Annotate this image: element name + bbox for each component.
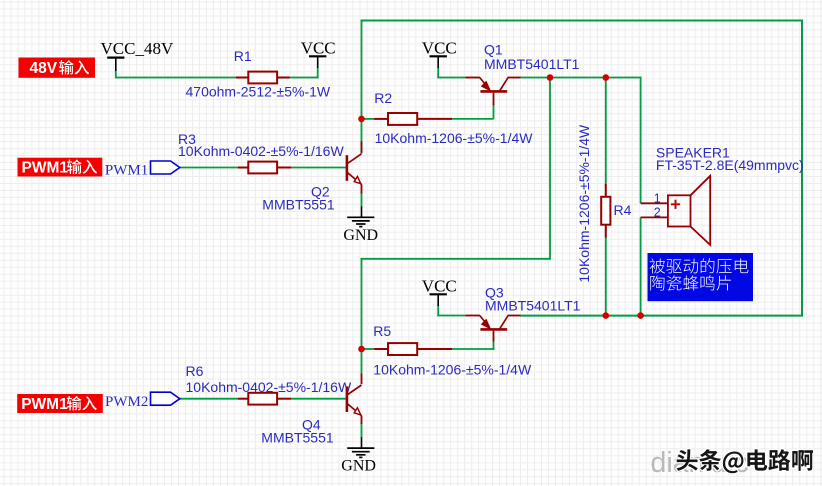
svg-text:VCC: VCC xyxy=(422,39,457,58)
svg-text:48V: 48V xyxy=(30,60,58,77)
power symbol VCC_48V xyxy=(107,56,124,58)
wire x361.5 down from y258.8 to Q4 collector xyxy=(361,258,363,375)
svg-text:MMBT5401LT1: MMBT5401LT1 xyxy=(485,298,581,314)
wire bottom rail y315.6 xyxy=(520,315,803,317)
annotation red box PWM1 input (bottom) xyxy=(17,394,103,413)
wire right border xyxy=(801,20,803,317)
svg-text:GND: GND xyxy=(343,227,378,244)
wire R1 to VCC xyxy=(290,77,318,79)
transistor Q4 MMBT5551 (NPN) xyxy=(361,374,363,384)
resistor R2 xyxy=(374,118,388,120)
svg-text:VCC: VCC xyxy=(301,39,336,58)
svg-text:2: 2 xyxy=(654,206,661,220)
resistor R5 xyxy=(374,348,388,350)
junction node dots xyxy=(358,116,365,123)
resistor R3 xyxy=(238,167,249,169)
wire R2 row xyxy=(362,118,375,120)
annotation blue box piezo buzzer note xyxy=(648,253,754,301)
svg-text:GND: GND xyxy=(341,458,376,475)
annotation red box PWM1 input (top) xyxy=(18,158,103,177)
svg-text:R4: R4 xyxy=(614,202,632,218)
wire R4 vertical net xyxy=(605,78,607,184)
power symbol VCC (after R1) xyxy=(309,55,326,57)
svg-text:470ohm-2512-±5%-1W: 470ohm-2512-±5%-1W xyxy=(186,83,331,99)
svg-text:VCC: VCC xyxy=(422,277,457,296)
ground GND (Q2 emitter) xyxy=(347,216,374,218)
svg-text:VCC_48V: VCC_48V xyxy=(101,39,174,58)
svg-text:PWM1: PWM1 xyxy=(22,159,69,176)
wire R5 row xyxy=(362,348,375,350)
wire Q4 emitter to GND xyxy=(361,423,363,438)
resistor R6 xyxy=(238,398,249,400)
transistor Q3 MMBT5401LT1 (PNP) xyxy=(466,315,480,317)
svg-text:FT-35T-2.8E(49mmpvc): FT-35T-2.8E(49mmpvc) xyxy=(656,157,804,173)
svg-text:1: 1 xyxy=(654,191,661,205)
svg-text:R6: R6 xyxy=(186,363,204,379)
svg-text:R5: R5 xyxy=(373,323,391,339)
svg-text:MMBT5401LT1: MMBT5401LT1 xyxy=(484,56,580,72)
svg-text:10Kohm-1206-±5%-1/4W: 10Kohm-1206-±5%-1/4W xyxy=(576,124,592,283)
svg-text:MMBT5551: MMBT5551 xyxy=(262,197,335,213)
svg-text:10Kohm-1206-±5%-1/4W: 10Kohm-1206-±5%-1/4W xyxy=(373,361,532,377)
svg-text:PWM1: PWM1 xyxy=(21,396,68,413)
svg-text:10Kohm-0402-±5%-1/16W: 10Kohm-0402-±5%-1/16W xyxy=(178,143,344,159)
power symbol VCC (Q1 emitter) xyxy=(430,55,447,57)
svg-text:10Kohm-0402-±5%-1/16W: 10Kohm-0402-±5%-1/16W xyxy=(186,379,352,395)
watermark 头条@电路啊 xyxy=(676,449,813,473)
port PWM1 xyxy=(151,161,180,174)
transistor Q2 MMBT5551 (NPN) xyxy=(361,141,363,153)
svg-text:R1: R1 xyxy=(234,48,252,64)
power symbol VCC (Q3 emitter) xyxy=(430,293,447,295)
wire VCC to Q1 emitter xyxy=(437,68,439,78)
resistor R1 xyxy=(236,77,249,79)
svg-text:10Kohm-1206-±5%-1/4W: 10Kohm-1206-±5%-1/4W xyxy=(375,130,534,146)
speaker polarity + xyxy=(671,203,680,205)
speaker SPEAKER1 pins xyxy=(641,202,668,204)
ground GND (Q4 emitter) xyxy=(347,447,374,449)
annotation red box 48V input xyxy=(19,58,96,78)
wire Q2 collector up to top border xyxy=(361,20,363,154)
wire junction x550 down to y258.8 then left to x361.5 xyxy=(549,78,551,259)
resistor R4 (vertical) xyxy=(605,184,607,197)
wire PWM1 port to R3 to Q2 base xyxy=(180,167,238,169)
wire Q2 emitter to GND xyxy=(361,193,363,207)
wire top border xyxy=(361,20,802,22)
svg-text:PWM2: PWM2 xyxy=(105,394,148,410)
wire speaker pin2 down to bottom rail xyxy=(640,217,642,315)
port PWM2 xyxy=(151,392,180,405)
svg-text:MMBT5551: MMBT5551 xyxy=(261,430,334,446)
speaker SPEAKER1 body xyxy=(668,195,691,226)
wire VCC_48V rail to R1 xyxy=(116,77,236,79)
transistor Q1 MMBT5401LT1 (PNP) xyxy=(466,77,480,79)
wire VCC to Q3 emitter xyxy=(437,306,439,316)
svg-text:PWM1: PWM1 xyxy=(105,163,148,179)
wire Q1 collector net: right then down to speaker pin 1 xyxy=(520,77,641,79)
svg-text:R2: R2 xyxy=(374,90,392,106)
wire PWM2 port to R6 to Q4 base xyxy=(180,398,238,400)
